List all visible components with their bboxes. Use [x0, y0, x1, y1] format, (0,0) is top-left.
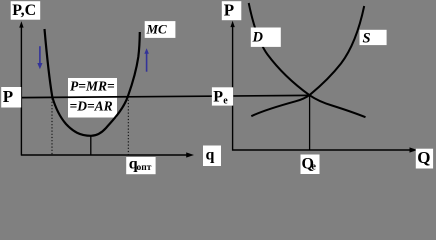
svg-text:D: D	[252, 30, 264, 46]
svg-text:P: P	[224, 1, 234, 20]
blue up arrow	[144, 48, 149, 71]
label box D	[251, 28, 281, 47]
label box P (left axis)	[1, 87, 21, 108]
label box Pe	[212, 87, 233, 106]
svg-text:q: q	[206, 147, 215, 164]
label box P=MR= / =D=AR	[68, 78, 117, 118]
svg-text:P=MR=: P=MR=	[70, 79, 115, 94]
price line P (spans both graphs to equilibrium)	[21, 95, 310, 97]
label box S	[360, 30, 387, 47]
label box Qe	[301, 155, 320, 175]
D curve (demand, right graph)	[249, 3, 366, 117]
right dotted guide line at q2	[127, 97, 129, 155]
label box q_opt	[126, 156, 155, 175]
S curve (supply, right graph)	[251, 6, 364, 116]
svg-text:P,C: P,C	[12, 2, 36, 19]
label box P,C	[11, 1, 41, 20]
equilibrium vertical line	[309, 95, 311, 150]
svg-text:опт: опт	[137, 163, 152, 173]
svg-text:P: P	[3, 87, 13, 106]
svg-text:Q: Q	[417, 148, 430, 167]
blue down arrow	[37, 46, 42, 69]
left y-axis	[20, 27, 22, 156]
svg-text:e: e	[312, 162, 317, 173]
svg-text:MC: MC	[146, 22, 168, 37]
label box MC	[145, 21, 176, 38]
tick from U bottom to axis	[90, 136, 92, 155]
left dotted guide line at q1	[51, 99, 53, 155]
right x-axis	[232, 149, 410, 151]
right y-axis	[232, 26, 234, 151]
svg-text:=D=AR: =D=AR	[70, 99, 113, 114]
label box q (left x-axis)	[203, 146, 221, 167]
label box P (right axis)	[222, 1, 242, 21]
MC curve (U-shaped)	[45, 29, 140, 136]
svg-text:S: S	[363, 30, 371, 46]
svg-text:P: P	[213, 89, 223, 106]
left x-axis	[21, 154, 188, 156]
label box Q (right x-axis)	[416, 148, 433, 169]
svg-text:e: e	[223, 96, 228, 107]
